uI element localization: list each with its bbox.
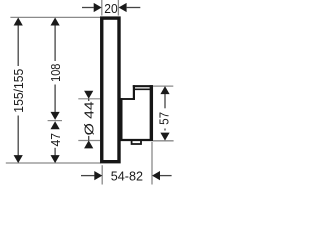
ext line: plate back down (54-82) (101, 165, 103, 184)
valve center tick (108/47 boundary) (48, 120, 62, 122)
dim 155/155 line (17, 25, 19, 66)
handle right face (150, 85, 153, 141)
svg-text:155/155: 155/155 (11, 69, 26, 113)
ext line: plate front up (20) (117, 0, 119, 16)
ext line: cap top right (57) (153, 85, 173, 87)
ext line: handle bottom right (57) (153, 140, 174, 142)
handle cap parting line (135, 88, 153, 90)
handle cap top edge (133, 85, 153, 87)
handle left face (121, 98, 123, 141)
wall bottom baseline (6, 162, 101, 164)
dim 57 line (164, 94, 166, 108)
svg-text:54-82: 54-82 (111, 168, 143, 183)
ext line: handle bottom left (Ø44) (78, 140, 100, 142)
svg-text:Ø 44: Ø 44 (81, 101, 96, 135)
dim 47 line (54, 148, 56, 156)
handle bottom edge (121, 139, 154, 141)
svg-text:57: 57 (156, 112, 171, 125)
ext line: plate back up (20) (101, 0, 103, 16)
handle underside button notch (131, 141, 142, 145)
dim 20 line (82, 7, 94, 9)
trim plate profile (102, 18, 119, 162)
wall top extension line (10, 16, 100, 18)
handle step vertical (133, 85, 135, 100)
handle top edge (121, 98, 135, 100)
ext line: handle front down (54-82) (151, 142, 153, 185)
svg-text:47: 47 (48, 133, 63, 147)
dim 54-82 line (81, 175, 94, 177)
ext line: handle top left (Ø44) (78, 98, 100, 100)
dim Ø44 line (88, 99, 90, 101)
svg-text:108: 108 (48, 64, 63, 82)
dim 108 line (54, 25, 56, 61)
svg-text:20: 20 (104, 1, 117, 16)
